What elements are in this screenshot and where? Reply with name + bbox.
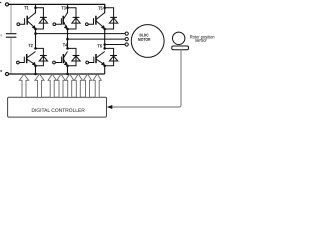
node T3 emitter junction <box>66 28 69 31</box>
label T5 <box>98 6 102 9</box>
node T5 top junction <box>103 7 106 10</box>
wire leg T5 collector drop <box>104 4 106 13</box>
wire leg T3 collector drop <box>67 4 69 13</box>
transistor T5 <box>85 13 104 30</box>
wire leg T4 bottom <box>67 66 69 74</box>
wire leg T3 midpoint <box>67 29 69 49</box>
wire capacitor bottom lead <box>10 38 12 74</box>
node T1 emitter junction <box>34 28 37 31</box>
arrow gate 1 <box>19 74 28 97</box>
node T6 bottom junction <box>103 65 106 68</box>
label T2 <box>28 44 32 47</box>
wire top DC rail <box>9 4 105 7</box>
wire leg T1 midpoint <box>35 29 37 49</box>
wire capacitor top lead <box>10 5 12 33</box>
transistor T1 <box>17 13 36 30</box>
transistor T3 <box>53 13 68 30</box>
node T5 emitter junction <box>103 28 106 31</box>
digital controller box <box>8 97 107 117</box>
node T1 top junction <box>34 7 37 10</box>
arrow gate 3 <box>48 74 56 97</box>
wire leg T1 collector drop <box>35 4 37 13</box>
diode across T3 <box>68 8 81 29</box>
motor M1 <box>131 25 164 58</box>
arrow gate 5 <box>66 74 74 97</box>
wire phase B <box>68 38 126 40</box>
wire leg T6 bottom <box>104 66 106 74</box>
transistor T4 <box>53 52 68 66</box>
node T6 top junction <box>103 47 106 50</box>
node T3 top junction <box>66 7 69 10</box>
diode across T2 <box>36 48 48 65</box>
diode across T6 <box>105 48 118 65</box>
transistor T2 <box>17 52 36 66</box>
diode across T4 <box>68 48 81 65</box>
terminal motor phase B <box>125 38 128 41</box>
label Vdc fragment <box>0 35 2 37</box>
arrow gate 4 <box>57 74 65 97</box>
node phase C tap <box>103 43 106 46</box>
edge artifact minus <box>0 70 2 72</box>
arrow gate 2 <box>35 74 44 97</box>
terminal negative <box>5 72 8 75</box>
label rotor position sensor <box>190 35 214 42</box>
node T2 bottom junction <box>34 65 37 68</box>
diode across T5 <box>105 8 118 29</box>
diode across T1 <box>36 8 48 29</box>
node phase A tap <box>34 32 37 35</box>
node bottom rail leg1 <box>34 73 37 76</box>
label T3 <box>61 6 65 9</box>
feedback arrowhead <box>107 105 113 109</box>
gate drive arrows <box>19 74 101 97</box>
sensor rotor position <box>172 32 189 50</box>
arrow gate 6 <box>74 74 82 97</box>
wire phase C <box>105 44 126 46</box>
wire bottom DC rail <box>9 73 105 75</box>
terminal motor phase C <box>125 43 128 46</box>
edge artifact plus <box>0 2 1 3</box>
node bottom rail leg2 <box>66 73 69 76</box>
arrow gate 8 <box>93 74 101 97</box>
wire sensor feedback <box>112 50 182 107</box>
terminal positive <box>5 3 8 6</box>
label T1 <box>24 6 28 9</box>
node T4 bottom junction <box>66 65 69 68</box>
label T4 <box>63 43 67 46</box>
node phase B tap <box>66 38 69 41</box>
label T6 <box>98 44 102 47</box>
arrow gate 7 <box>83 74 91 97</box>
wire leg T2 bottom <box>35 66 37 74</box>
transistor T6 <box>86 52 105 66</box>
capacitor C1 <box>6 34 17 38</box>
terminal motor phase A <box>125 32 128 35</box>
wire phase A <box>36 33 126 35</box>
node T2 top junction <box>34 47 37 50</box>
node T4 top junction <box>66 47 69 50</box>
wire leg T5 midpoint <box>104 29 106 49</box>
